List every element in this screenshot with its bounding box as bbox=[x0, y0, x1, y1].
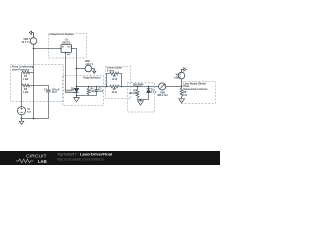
svg-text:LaserDriverFinal: LaserDriverFinal bbox=[80, 153, 112, 157]
svg-text:LAB: LAB bbox=[38, 159, 47, 164]
svg-text:1 kΩ: 1 kΩ bbox=[23, 78, 28, 81]
svg-text:+18.1 V: +18.1 V bbox=[85, 63, 94, 66]
svg-text:1 kΩ: 1 kΩ bbox=[23, 91, 28, 94]
svg-text:1 µF: 1 µF bbox=[98, 90, 103, 93]
svg-text:10 Ω: 10 Ω bbox=[112, 78, 117, 81]
svg-text:Voltage/Current Regulator: Voltage/Current Regulator bbox=[49, 32, 74, 36]
svg-text:http://circuitlab.com/c4t99c2r: http://circuitlab.com/c4t99c2r bbox=[57, 157, 105, 161]
svg-text:1N4007: 1N4007 bbox=[66, 90, 75, 93]
svg-text:100 kΩ: 100 kΩ bbox=[129, 92, 137, 95]
svg-text:Represented as Resistor: Represented as Resistor bbox=[183, 87, 208, 91]
svg-text:1.88 V: 1.88 V bbox=[174, 76, 181, 79]
svg-text:LM317L: LM317L bbox=[62, 42, 71, 45]
svg-text:240 Ω: 240 Ω bbox=[90, 90, 97, 93]
svg-text:TopTurtle57 /: TopTurtle57 / bbox=[57, 153, 79, 157]
svg-text:5 Ω: 5 Ω bbox=[183, 93, 187, 97]
svg-text:16.7 V: 16.7 V bbox=[21, 41, 28, 44]
svg-text:5.1 V: 5.1 V bbox=[151, 91, 157, 94]
svg-text:10 Ω: 10 Ω bbox=[112, 91, 117, 94]
svg-text:Voltage Distribution: Voltage Distribution bbox=[83, 76, 101, 80]
svg-text:386.2 mA: 386.2 mA bbox=[157, 94, 168, 97]
svg-text:Invert Protection: Invert Protection bbox=[12, 68, 29, 72]
svg-text:5 V: 5 V bbox=[27, 111, 31, 114]
svg-text:16 V: 16 V bbox=[52, 91, 57, 94]
svg-text:ADJ: ADJ bbox=[67, 53, 70, 56]
